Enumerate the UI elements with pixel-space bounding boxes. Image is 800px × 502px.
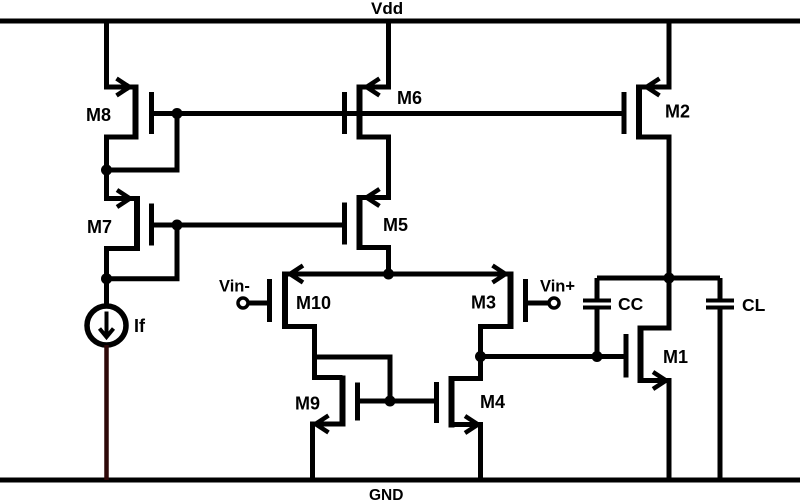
svg-text:GND: GND bbox=[369, 487, 403, 502]
transistor M4 bbox=[437, 376, 479, 433]
node output junction bbox=[664, 273, 675, 284]
svg-text:If: If bbox=[134, 316, 146, 336]
transistor M10 bbox=[270, 266, 304, 330]
node tail junction bbox=[383, 269, 394, 280]
svg-text:Vin-: Vin- bbox=[219, 278, 250, 296]
capacitor CL bbox=[706, 278, 734, 480]
wire current source to GND (dark red) bbox=[104, 345, 109, 480]
GND rail bbox=[0, 478, 800, 483]
transistor M6 bbox=[345, 79, 380, 140]
wire M7 gate lead to M5 bbox=[152, 223, 345, 228]
node M7 drain junction bbox=[101, 273, 112, 284]
svg-text:CL: CL bbox=[742, 295, 766, 315]
wire M6 drain to M5 source bbox=[360, 137, 389, 198]
current source If bbox=[87, 306, 126, 345]
wire Vdd to M2 source bbox=[639, 21, 669, 87]
transistor M7 bbox=[117, 190, 152, 251]
transistor M9 bbox=[316, 376, 358, 433]
wire M2 drain to output node bbox=[639, 137, 669, 278]
svg-text:M3: M3 bbox=[471, 293, 496, 313]
svg-text:M4: M4 bbox=[480, 392, 505, 412]
Vdd rail bbox=[0, 19, 800, 24]
transistor M1 bbox=[626, 326, 666, 390]
wire M3 drain to M1 gate bbox=[481, 354, 627, 359]
wire M4 source to GND bbox=[452, 425, 481, 481]
wire M8 drain down to M7 source bbox=[107, 137, 138, 199]
wire M9 source to GND bbox=[313, 424, 343, 480]
transistor M3 bbox=[493, 266, 526, 330]
svg-text:M7: M7 bbox=[87, 217, 112, 237]
wire Vdd to M6 source bbox=[360, 21, 389, 87]
wire output node horizontal bbox=[597, 276, 720, 281]
wire Vdd to M8 source bbox=[107, 21, 136, 87]
svg-text:Vdd: Vdd bbox=[371, 0, 403, 18]
svg-text:M2: M2 bbox=[665, 102, 690, 122]
wire M5 drain to tail node bbox=[360, 248, 389, 275]
transistor M5 bbox=[345, 189, 380, 250]
svg-text:M8: M8 bbox=[86, 105, 111, 125]
wire M9/M4 gate bus bbox=[358, 399, 437, 404]
terminal Vin+ bbox=[549, 298, 559, 308]
wire gate bus M8-M6-M2 bbox=[152, 111, 625, 116]
wire M7 diode connection bbox=[107, 225, 178, 279]
node M8 drain junction bbox=[101, 165, 112, 176]
svg-text:M1: M1 bbox=[663, 347, 688, 367]
node CC bottom junction bbox=[592, 351, 603, 362]
node M7 gate junction bbox=[172, 220, 183, 231]
node M9 gate junction bbox=[385, 396, 396, 407]
wire M3 gate lead bbox=[526, 301, 549, 306]
wire M4 drain up to M3 bbox=[452, 357, 481, 379]
wire M3 drain down bbox=[481, 327, 511, 357]
wire M10 drain branch to M9 gate bbox=[315, 357, 391, 401]
node M8 gate junction bbox=[172, 108, 183, 119]
wire M7 drain down to current source bbox=[107, 249, 138, 306]
transistor M8 bbox=[117, 79, 152, 140]
svg-text:M9: M9 bbox=[295, 394, 320, 414]
svg-text:M6: M6 bbox=[397, 88, 422, 108]
capacitor CC bbox=[583, 278, 611, 357]
transistor M2 bbox=[624, 79, 660, 140]
wire M1 source to GND bbox=[641, 381, 670, 481]
svg-text:M5: M5 bbox=[383, 215, 408, 235]
svg-text:M10: M10 bbox=[296, 293, 331, 313]
wire M1 drain to output node bbox=[641, 278, 670, 328]
wire M10 drain to M9 drain bbox=[285, 327, 343, 378]
node M3 drain junction bbox=[475, 351, 486, 362]
wire M8 diode connection bbox=[107, 114, 178, 171]
wire tail node bbox=[285, 272, 511, 277]
wire M10 gate lead bbox=[249, 301, 270, 306]
svg-text:Vin+: Vin+ bbox=[540, 278, 575, 296]
svg-text:CC: CC bbox=[618, 294, 644, 314]
terminal Vin- bbox=[238, 298, 248, 308]
